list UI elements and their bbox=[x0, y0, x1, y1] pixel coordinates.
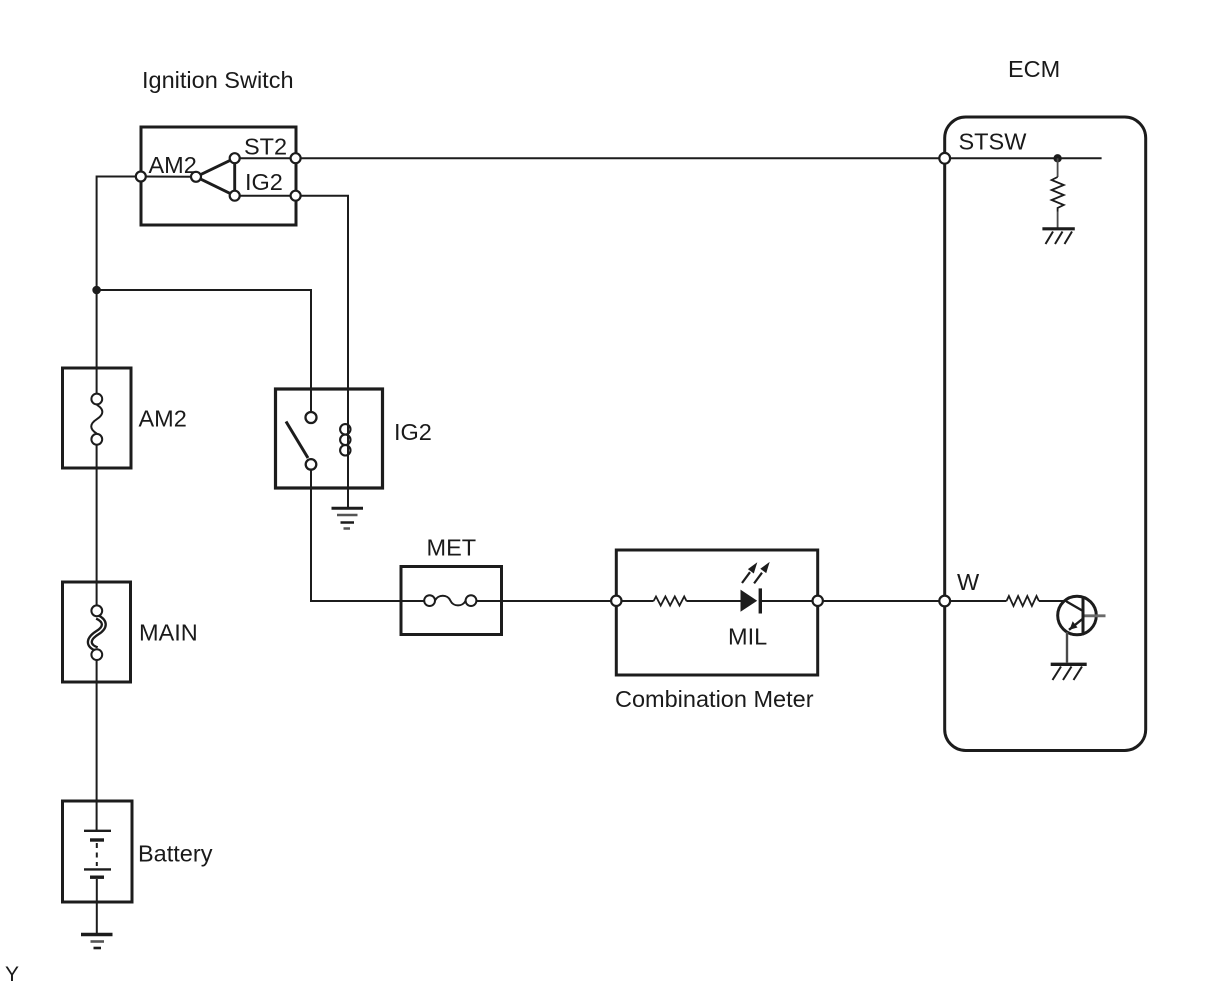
svg-text:ECM: ECM bbox=[1008, 56, 1060, 82]
relay IG2 box bbox=[276, 389, 383, 488]
wire dot to resistor bbox=[1057, 158, 1059, 177]
wire MET fuse to combination meter bbox=[471, 600, 616, 602]
transistor collector stub bbox=[1085, 614, 1106, 617]
resistor STSW pull bbox=[1052, 177, 1064, 212]
fuse AM2 box bbox=[63, 368, 132, 468]
wire STSW internal bbox=[945, 157, 1102, 159]
wire CM left terminal to resistor bbox=[616, 600, 653, 602]
wire resistor to transistor bbox=[1039, 600, 1067, 602]
transistor Q (MIL driver) bbox=[1058, 596, 1097, 635]
ECM box bbox=[945, 117, 1146, 751]
wire relay switch to MET fuse bbox=[311, 470, 430, 601]
terminal STSW bbox=[939, 153, 950, 164]
svg-text:IG2: IG2 bbox=[394, 419, 432, 445]
svg-text:IG2: IG2 bbox=[245, 169, 283, 195]
wire junction to relay switch bbox=[97, 290, 311, 389]
LED light arrow 2 bbox=[754, 573, 762, 584]
ignition switch box bbox=[141, 127, 296, 225]
ground transistor emitter bbox=[1051, 663, 1087, 666]
terminal IG2 bbox=[291, 191, 301, 201]
wire resistor to LED bbox=[686, 600, 741, 602]
LED MIL diode bbox=[741, 590, 758, 612]
wire coil to ground bbox=[347, 457, 349, 507]
ground STSW resistor bbox=[1042, 227, 1074, 230]
wire LED to CM right terminal bbox=[762, 600, 818, 602]
wire IG2 contact to box edge bbox=[235, 195, 296, 197]
svg-text:Ignition Switch: Ignition Switch bbox=[142, 67, 294, 93]
fuse MET box bbox=[401, 567, 502, 635]
wire W internal to resistor bbox=[945, 600, 1007, 602]
relay contact bottom bbox=[306, 459, 317, 470]
LED light arrow 1 bbox=[742, 572, 750, 583]
fuse MET element bbox=[435, 596, 466, 606]
fusible link MAIN box bbox=[63, 582, 131, 682]
svg-text:STSW: STSW bbox=[959, 129, 1028, 155]
relay contact top bbox=[306, 412, 317, 423]
switch pivot contact bbox=[191, 172, 201, 182]
switch contact lines bbox=[196, 158, 235, 196]
svg-text:W: W bbox=[957, 569, 980, 595]
contact ST2 bbox=[230, 153, 240, 163]
battery plates bbox=[84, 830, 111, 832]
svg-text:AM2: AM2 bbox=[139, 406, 187, 432]
wire resistor to ground bbox=[1057, 212, 1059, 229]
contact IG2 bbox=[230, 191, 240, 201]
relay coil bbox=[347, 389, 349, 457]
wire IG2 terminal to relay coil bbox=[296, 196, 348, 389]
svg-text:Combination Meter: Combination Meter bbox=[615, 686, 814, 712]
resistor MIL series bbox=[654, 597, 687, 606]
fusible link MAIN element bbox=[90, 617, 104, 649]
combination meter box bbox=[616, 550, 817, 675]
terminal CM left bbox=[611, 596, 621, 606]
wire emitter to ground bbox=[1066, 632, 1068, 663]
terminal AM2 bbox=[136, 172, 146, 182]
node junction dot bbox=[92, 286, 101, 295]
relay switch wire top bbox=[310, 389, 312, 413]
relay switch blade bbox=[286, 422, 308, 459]
fuse AM2 element bbox=[91, 405, 102, 434]
wire AM2 terminal to left vertical bbox=[97, 177, 141, 400]
node STSW junction dot bbox=[1053, 154, 1061, 162]
wire MAIN fuse to battery bbox=[96, 655, 98, 831]
terminal ST2 bbox=[291, 153, 301, 163]
wire ST2 contact to box edge bbox=[235, 157, 296, 159]
svg-text:ST2: ST2 bbox=[244, 134, 287, 160]
svg-text:Battery: Battery bbox=[138, 841, 213, 867]
svg-text:MET: MET bbox=[427, 535, 477, 561]
wire ST2 terminal to ECM STSW bbox=[296, 157, 945, 159]
ground battery bbox=[81, 933, 113, 936]
wire battery to ground bbox=[96, 879, 98, 933]
ground relay coil bbox=[332, 507, 364, 510]
terminal CM right bbox=[813, 596, 823, 606]
svg-text:MIL: MIL bbox=[728, 624, 767, 650]
resistor W base bbox=[1007, 596, 1039, 606]
svg-text:MAIN: MAIN bbox=[139, 620, 198, 646]
svg-text:AM2: AM2 bbox=[149, 152, 197, 178]
battery box bbox=[63, 801, 133, 902]
svg-text:Y: Y bbox=[5, 963, 19, 986]
wire AM2 fuse to MAIN fuse bbox=[96, 439, 98, 611]
wire CM to ECM W pin bbox=[823, 600, 945, 602]
terminal W bbox=[939, 596, 950, 607]
wire pivot to AM2 terminal bbox=[141, 176, 196, 178]
